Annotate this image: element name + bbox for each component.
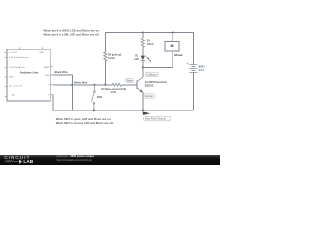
tag Base xyxy=(126,78,134,82)
node: switch bottom on bus xyxy=(93,109,95,111)
svg-text:BAT1: BAT1 xyxy=(199,65,206,68)
motor M1 box xyxy=(165,42,179,52)
battery BAT1 xyxy=(189,65,197,73)
svg-text:When SW1 is open, LED and Moto: When SW1 is open, LED and Motor are on. xyxy=(56,117,112,121)
transistor Q1 xyxy=(137,77,143,92)
diode D1 LED xyxy=(141,56,151,62)
svg-text:5V@500mA max: 5V@500mA max xyxy=(9,66,26,69)
wire: white wire (base net) horizontal xyxy=(53,84,112,86)
switch SW1 xyxy=(92,85,96,110)
annotation bottom: SW1 behavior text xyxy=(56,117,114,125)
CircuitLab logo xyxy=(4,155,46,166)
wire: left drop to R3 xyxy=(104,33,106,53)
node: motor branch on top bus xyxy=(172,32,174,34)
wire: black wire from pin 8 xyxy=(53,75,72,85)
svg-text:M: M xyxy=(171,44,174,48)
wire: top bus to R1 xyxy=(142,33,144,39)
node: switch tap on white wire xyxy=(94,84,96,86)
svg-text:7 to 12V: 7 to 12V xyxy=(9,51,17,54)
wire: top bus right corner down to battery xyxy=(192,33,194,65)
label Q1 xyxy=(145,81,167,87)
ground flag symbol xyxy=(143,112,150,115)
Arduino Uno module box xyxy=(7,49,50,101)
Arduino right pin stubs xyxy=(50,67,53,95)
resistor R1 xyxy=(141,38,144,47)
wire: top bus to motor xyxy=(172,33,174,42)
wire: collector vertical xyxy=(142,67,144,77)
tag Collector xyxy=(145,72,158,76)
svg-text:White Wire: White Wire xyxy=(74,80,88,84)
svg-text:GND: GND xyxy=(45,75,50,77)
svg-text:3.3V (regulated) max: 3.3V (regulated) max xyxy=(9,56,29,59)
svg-text:4.5 V: 4.5 V xyxy=(199,69,205,72)
battery plus sign xyxy=(187,63,189,65)
svg-text:When pin 8 is HIGH, LED and Mo: When pin 8 is HIGH, LED and Motor are on… xyxy=(44,29,100,33)
label R3 xyxy=(108,53,121,60)
node: motor/LED junction xyxy=(142,66,144,68)
svg-text:LAB: LAB xyxy=(23,159,33,165)
svg-text:Vin: +7 to 12V: Vin: +7 to 12V xyxy=(9,85,23,88)
wire: LED to collector node xyxy=(142,61,144,68)
svg-text:Black Wire: Black Wire xyxy=(55,70,69,74)
svg-text:Base: Base xyxy=(127,79,133,83)
wire: top supply bus xyxy=(105,32,193,34)
label R2 xyxy=(102,88,127,94)
svg-text:Emitter: Emitter xyxy=(145,94,153,98)
svg-text:When SW1 is closed, LED and Mo: When SW1 is closed, LED and Motor are of… xyxy=(56,121,114,125)
label R1 xyxy=(147,39,154,46)
svg-text:USB: USB xyxy=(39,52,44,54)
tag New Point Ground xyxy=(144,116,171,120)
svg-text:Motor: Motor xyxy=(174,53,183,57)
node: R3 on white wire xyxy=(104,84,106,86)
footer text xyxy=(56,155,94,162)
label D1 LED xyxy=(134,55,139,61)
svg-text:New Point Ground: New Point Ground xyxy=(145,117,166,121)
svg-text:LED: LED xyxy=(134,58,139,61)
node: emitter on bus xyxy=(142,109,144,111)
wire: down from junction to ground bus xyxy=(71,85,73,111)
wire: ground bus bottom xyxy=(53,109,194,111)
wire: R1 to LED xyxy=(142,47,144,55)
label BAT1 4.5V xyxy=(199,65,206,72)
svg-text:10 kΩ: 10 kΩ xyxy=(108,57,115,60)
footer bar xyxy=(0,155,220,165)
resistor R3 (pull-up) xyxy=(104,52,107,61)
node: R1 branch on top bus xyxy=(142,32,144,34)
svg-text:100 Ω: 100 Ω xyxy=(147,43,154,46)
wire: R2 to base xyxy=(121,84,137,86)
svg-text:AREF: AREF xyxy=(44,66,50,69)
Arduino internal labels xyxy=(9,51,50,97)
Q1 emitter arrowhead xyxy=(140,90,143,93)
svg-text:1 kΩ: 1 kΩ xyxy=(111,91,116,94)
wire: collector node to motor bottom xyxy=(143,51,173,67)
LED arrows xyxy=(146,56,151,61)
wire: R3 bottom to white wire xyxy=(104,61,106,85)
svg-text:SW1: SW1 xyxy=(97,95,103,99)
wire: battery bottom to ground bus xyxy=(192,72,194,110)
svg-text:2N2222: 2N2222 xyxy=(145,84,154,87)
wire: arduino GND pin down to ground bus xyxy=(53,95,72,111)
Arduino left pin stubs xyxy=(5,53,7,97)
annotation top: pin 8 behavior text xyxy=(44,29,100,37)
svg-text:Arduino Uno: Arduino Uno xyxy=(20,70,39,74)
Arduino power-jack pin stub (top) xyxy=(19,47,21,49)
tag Emitter xyxy=(144,94,155,98)
resistor R2 (bias current limit) horizontal xyxy=(112,83,121,86)
svg-text:GND: GND xyxy=(9,77,14,79)
svg-text:When pin 8 is LOW, LED and Mot: When pin 8 is LOW, LED and Motor are off… xyxy=(44,32,100,36)
svg-text:Collector: Collector xyxy=(147,72,157,76)
wire: emitter vertical xyxy=(142,92,144,110)
Arduino USB pin stub (top) xyxy=(42,47,44,49)
node: black/white junction xyxy=(71,84,73,86)
